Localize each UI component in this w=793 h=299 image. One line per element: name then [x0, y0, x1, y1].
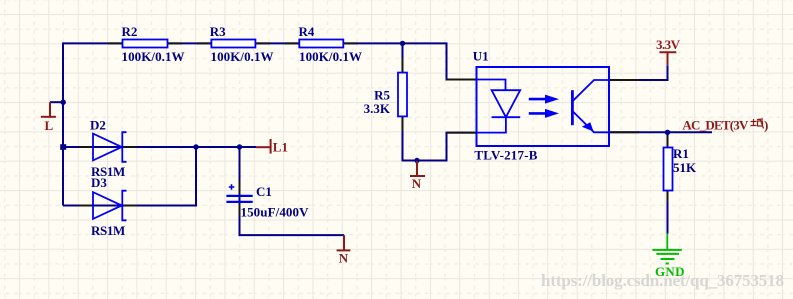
pin leads R5 [402, 58, 404, 131]
svg-text:51K: 51K [673, 160, 697, 175]
node junction L tee [61, 100, 66, 105]
label U1 value TLV-217-B [474, 148, 537, 163]
resistor R2 [123, 40, 168, 48]
svg-text:D3: D3 [91, 175, 107, 190]
svg-text:https://blog.csdn.net/qq_36753: https://blog.csdn.net/qq_36753518 [541, 271, 784, 290]
label R5 value [364, 101, 391, 116]
svg-text:R3: R3 [210, 24, 226, 39]
svg-text:RS1M: RS1M [91, 223, 125, 238]
svg-text:L: L [45, 118, 54, 133]
svg-text:AC_DET(3V: AC_DET(3V [682, 117, 749, 132]
label R5 designator [374, 88, 390, 103]
wire D3 row and riser [63, 147, 196, 206]
port L1 [256, 139, 288, 154]
port N bottom [337, 235, 351, 266]
label R1 designator [673, 146, 689, 161]
wire R1 to GND [667, 132, 669, 233]
node AC_DET(3V) net label [682, 117, 768, 132]
svg-text:R4: R4 [299, 24, 315, 39]
pin leads D3 [79, 205, 137, 207]
node junction R5 top [400, 41, 405, 46]
pin leads R1 [667, 136, 669, 202]
diode D3 [93, 191, 127, 221]
U1 light arrow 2 [529, 109, 559, 118]
label D3 value RS1M [91, 223, 125, 238]
svg-text:100K/0.1W: 100K/0.1W [122, 49, 185, 64]
label D2 designator [90, 118, 106, 133]
svg-text:D2: D2 [90, 118, 106, 133]
svg-text:3.3K: 3.3K [364, 101, 391, 116]
svg-text:L1: L1 [273, 139, 288, 154]
svg-text:R2: R2 [122, 24, 138, 39]
wire U1 pin4 to 3.3V [609, 65, 668, 80]
pin 2 U1 [447, 132, 477, 134]
node junction D2 row square [60, 144, 66, 150]
label R4 value [299, 49, 362, 64]
wire C1 branch to N [240, 147, 345, 235]
wire D2 row [63, 146, 256, 148]
resistor R4 [299, 40, 343, 48]
svg-text:3.3V: 3.3V [656, 37, 681, 52]
capacitor C1 [226, 184, 252, 202]
label D3 designator [91, 175, 107, 190]
op-amp U1 optocoupler box [477, 67, 610, 146]
port L [41, 102, 63, 133]
node junction AC_DET [665, 130, 670, 135]
label C1 designator [256, 184, 272, 199]
label R2 designator [122, 24, 138, 39]
pin leads R3 [197, 42, 270, 44]
svg-text:): ) [764, 117, 768, 132]
pin leads C1 [239, 181, 241, 217]
wire top bus from left corner to R2 [63, 43, 477, 205]
diode D2 [93, 132, 127, 162]
node junction D3 riser [193, 144, 198, 149]
svg-text:R1: R1 [673, 146, 689, 161]
wire R5 branch down and to U1 pin2 [403, 43, 477, 160]
pin leads R4 [285, 42, 358, 44]
svg-text:100K/0.1W: 100K/0.1W [211, 49, 274, 64]
port N mid [410, 161, 425, 191]
label R3 value [211, 49, 274, 64]
label R3 designator [210, 24, 226, 39]
U1 LED [477, 80, 521, 133]
svg-text:TLV-217-B: TLV-217-B [474, 148, 537, 163]
resistor R3 [211, 40, 255, 48]
label R1 value [673, 160, 697, 175]
resistor R1 [664, 148, 673, 191]
pin leads R2 [108, 42, 182, 44]
svg-text:N: N [339, 251, 349, 266]
pin leads D2 [79, 146, 137, 148]
label C1 value [241, 205, 310, 220]
pin 1 U1 [447, 79, 477, 81]
watermark [541, 271, 784, 290]
node junction N tap [414, 158, 419, 163]
wire U1 pin3 AC_DET net [609, 131, 712, 133]
svg-text:150uF/400V: 150uF/400V [241, 205, 310, 220]
label R4 designator [299, 24, 315, 39]
label R2 value [122, 49, 185, 64]
pin 3 U1 [609, 131, 639, 133]
svg-text:U1: U1 [473, 48, 489, 63]
power port 3.3V [656, 37, 681, 65]
pin 4 U1 [609, 79, 639, 81]
U1 light arrow 1 [529, 95, 559, 104]
U1 phototransistor [572, 80, 609, 132]
ground GND [652, 234, 684, 279]
svg-text:N: N [412, 176, 422, 191]
svg-text:C1: C1 [256, 184, 272, 199]
label D2 value RS1M [91, 164, 125, 179]
node junction C1 tap [237, 144, 242, 149]
label U1 designator [473, 48, 489, 63]
svg-text:100K/0.1W: 100K/0.1W [299, 49, 362, 64]
resistor R5 [398, 73, 407, 117]
